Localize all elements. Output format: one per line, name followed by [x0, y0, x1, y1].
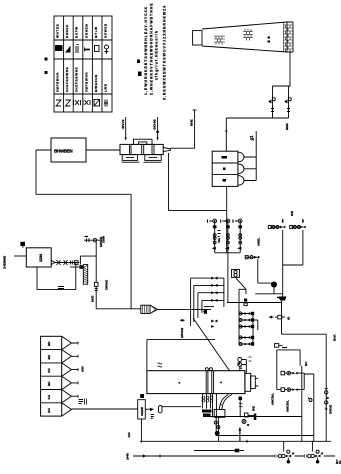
svg-text:rNE: rNE — [217, 238, 221, 243]
svg-text:3.REHWXEEWTHSWOVVJZXNBRHEWZ4: 3.REHWXEEWTHSWOVVJZXNBRHEWZ4 — [162, 5, 166, 100]
svg-text:3MFBWHR: 3MFBWHR — [84, 72, 88, 92]
svg-text:AMEL: AMEL — [257, 237, 261, 246]
svg-text:AMCBrL: AMCBrL — [286, 400, 290, 412]
svg-text:EWHrB: EWHrB — [180, 327, 184, 338]
svg-text:XHEW: XHEW — [140, 407, 144, 416]
svg-text:XWHrE: XWHrE — [105, 280, 109, 290]
svg-text:BN: BN — [47, 342, 51, 346]
svg-text:KH: KH — [47, 395, 51, 399]
svg-text:BN: BN — [47, 355, 51, 359]
svg-text:a: a — [179, 381, 181, 385]
svg-text:KN: KN — [47, 368, 51, 372]
svg-text:B: B — [320, 452, 324, 455]
svg-text:g1: g1 — [249, 135, 254, 141]
svg-text:HRNEM: HRNEM — [84, 24, 88, 39]
svg-text:BH: BH — [47, 408, 51, 412]
svg-text:EWHrB: EWHrB — [99, 236, 103, 247]
svg-text:3HEFRBWNE: 3HEFRBWNE — [75, 67, 79, 92]
svg-text:1445: 1445 — [126, 453, 130, 460]
svg-text:SRNEK: SRNEK — [65, 24, 69, 38]
svg-text:MHE: MHE — [190, 119, 194, 126]
svg-text:xfhg/ruf.HEkwanr/h: xfhg/ruf.HEkwanr/h — [154, 30, 158, 80]
svg-text:3HEFRBWNE: 3HEFRBWNE — [65, 67, 69, 92]
svg-text:WE: WE — [252, 406, 256, 411]
svg-text:B: B — [291, 452, 295, 455]
svg-text:2.WHENKSVTHREWBHDRHAFWBTNHE: 2.WHENKSVTHREWBHDRHAFWBTNHE — [149, 2, 153, 95]
svg-text:WHTEB: WHTEB — [56, 23, 60, 38]
svg-text:BME: BME — [285, 123, 289, 130]
svg-text:MTLW: MTLW — [94, 26, 98, 38]
svg-text:MWERHB: MWERHB — [94, 74, 98, 92]
svg-text:1HEMWB: 1HEMWB — [3, 255, 7, 269]
svg-text:NHE: NHE — [91, 296, 95, 302]
svg-text:144: 144 — [127, 432, 131, 437]
svg-text:LWE: LWE — [104, 83, 108, 92]
svg-text:3HKrE: 3HKrE — [329, 405, 333, 414]
svg-text:BHWBEN: BHWBEN — [54, 149, 73, 154]
svg-text:1.EWHRNKEBTSHWNEHLEAY.HYC4X: 1.EWHRNKEBTSHWNEHLEAY.HYC4X — [144, 6, 148, 95]
svg-text:4: 4 — [220, 381, 222, 385]
svg-text:WB: WB — [290, 210, 294, 216]
svg-text:rHN: rHN — [81, 366, 85, 372]
svg-text:-WV-rB: -WV-rB — [121, 119, 125, 130]
svg-text:BKFW: BKFW — [75, 26, 79, 38]
svg-text:BrtK: BrtK — [333, 334, 337, 341]
svg-text:-SKI-9B: -SKI-9B — [153, 119, 157, 131]
svg-text:Brt: Brt — [304, 362, 308, 366]
svg-text:rB: rB — [286, 316, 290, 320]
svg-text:B: B — [246, 423, 250, 426]
svg-text:1234: 1234 — [38, 253, 43, 262]
svg-text:HKWEB: HKWEB — [104, 23, 108, 38]
svg-text:BH: BH — [47, 382, 51, 386]
svg-text:3MFEWHR: 3MFEWHR — [56, 72, 60, 92]
svg-text:AMCBrL: AMCBrL — [271, 393, 275, 405]
